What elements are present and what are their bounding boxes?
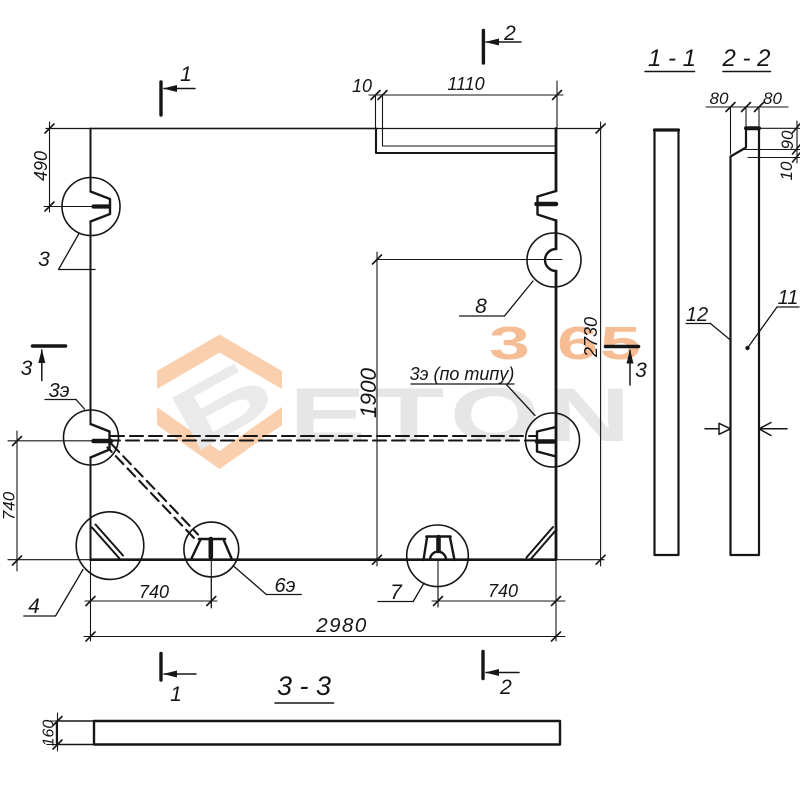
svg-text:1110: 1110 <box>447 74 484 94</box>
svg-text:2: 2 <box>499 676 512 699</box>
svg-text:490: 490 <box>31 151 51 181</box>
svg-text:80: 80 <box>763 89 782 108</box>
top dim 10 and 1110 <box>369 94 563 96</box>
dim 1900 <box>376 252 378 566</box>
panel left edge <box>90 129 92 192</box>
svg-text:2: 2 <box>503 22 516 45</box>
top-right recess outer <box>376 129 556 154</box>
2-2 dims 80 80 <box>706 106 788 108</box>
2-2 dims 90 10 <box>796 121 798 163</box>
dim 490 <box>49 122 51 212</box>
svg-text:12: 12 <box>686 304 708 326</box>
detail circle 8 <box>527 233 581 287</box>
svg-text:Б: Б <box>155 339 288 471</box>
dashed anchor line diagonal <box>112 444 199 535</box>
loop detail 7 <box>407 525 469 587</box>
svg-text:7: 7 <box>390 581 403 604</box>
section 2-2 bar <box>731 128 760 555</box>
section 1-1 bar <box>655 130 679 555</box>
detail circle right-middle anchor <box>526 413 580 467</box>
svg-text:6э: 6э <box>275 575 296 597</box>
watermark logo hexagon <box>157 335 282 470</box>
svg-text:740: 740 <box>139 582 169 602</box>
svg-text:2980: 2980 <box>315 614 368 637</box>
section marker 3 right <box>606 345 639 349</box>
svg-text:1 - 1: 1 - 1 <box>648 45 696 72</box>
loop detail 6e <box>184 522 239 577</box>
svg-text:10: 10 <box>352 76 372 96</box>
svg-text:8: 8 <box>475 295 487 318</box>
dashed anchor line horizontal <box>111 435 537 437</box>
thickness arrows <box>705 428 719 430</box>
svg-text:740: 740 <box>488 581 518 601</box>
watermark ETON <box>289 372 638 458</box>
section 3-3 bar <box>57 721 561 745</box>
dim 2980 <box>84 636 565 638</box>
svg-text:365: 365 <box>489 318 641 370</box>
svg-text:3: 3 <box>38 248 50 271</box>
panel right edge <box>555 129 558 192</box>
svg-text:1900: 1900 <box>356 367 381 418</box>
panel bottom edge <box>8 559 604 561</box>
svg-text:3 - 3: 3 - 3 <box>277 671 331 701</box>
svg-text:1: 1 <box>180 63 192 86</box>
detail circle 3 <box>62 178 120 236</box>
svg-text:2730: 2730 <box>581 317 601 358</box>
watermark 365 <box>489 318 641 370</box>
right edge top anchor detail <box>538 191 557 221</box>
dim 740 bottom-left <box>85 600 217 602</box>
watermark logo letter B <box>155 339 288 471</box>
detail circle 3e <box>64 410 119 465</box>
svg-text:2 - 2: 2 - 2 <box>721 45 770 72</box>
svg-text:160: 160 <box>41 720 58 747</box>
svg-text:3: 3 <box>635 359 647 382</box>
corner detail bottom-right <box>530 530 557 561</box>
svg-text:3э: 3э <box>49 380 70 402</box>
svg-text:11: 11 <box>778 287 799 309</box>
corner detail circle 4 <box>76 512 144 580</box>
section marker 2 top <box>482 31 485 64</box>
section marker 3 left <box>33 344 66 348</box>
dim 2730 <box>600 122 602 566</box>
panel top edge <box>46 128 601 130</box>
section marker 1 bottom <box>159 654 162 681</box>
dim 740 bottom-right <box>432 600 565 602</box>
svg-text:90: 90 <box>778 130 797 149</box>
svg-text:3э (по типу): 3э (по типу) <box>410 364 515 384</box>
section marker 2 bottom <box>481 652 484 679</box>
svg-text:10: 10 <box>777 161 796 180</box>
top-right recess inner <box>383 129 556 147</box>
svg-text:4: 4 <box>28 595 40 618</box>
dim 740 left <box>16 431 18 571</box>
section marker 1 top <box>159 82 162 115</box>
svg-text:80: 80 <box>710 89 729 108</box>
svg-text:3: 3 <box>21 357 33 380</box>
svg-text:740: 740 <box>0 491 19 520</box>
dim 160 <box>57 713 59 751</box>
svg-text:1: 1 <box>170 683 182 706</box>
